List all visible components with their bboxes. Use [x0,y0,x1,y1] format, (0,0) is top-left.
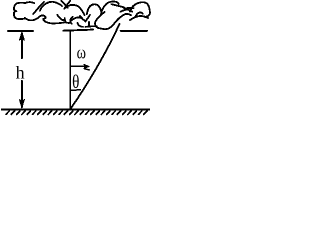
h dimension arrow: upper stem [21,33,23,58]
cloud left: z-curl [42,15,46,21]
cloud left: big top arc [40,2,62,11]
svg-text:h: h [16,63,25,83]
cloud right: top stroke [112,4,124,7]
cloud middle: L scallop [65,18,70,23]
cloud middle: right foot stroke [95,12,104,22]
cloud base line segment A [8,30,33,32]
cloud right: big arch [130,2,150,17]
omega arrowhead [84,64,89,68]
svg-text:ω: ω [77,42,86,63]
cloud left: diagonal stroke [33,2,44,14]
cloud middle: small left arc [57,15,65,20]
h dimension arrow: up arrowhead [19,32,24,40]
h dimension arrow: lower stem [21,81,23,108]
cloud middle: paren scallop [70,17,73,24]
cloud middle: bottom bowl arc [95,14,125,29]
ground line [2,108,149,110]
cloud middle: X cross stroke A [61,1,68,8]
cloud left: bottom wave [25,16,41,21]
ground hatching [6,111,147,114]
cloud middle: top wave right [65,5,85,15]
cloud left: top wave [24,2,34,3]
cloud right: inner arc [135,12,143,17]
cloud base line segment D [121,30,147,32]
cloud middle: bottom edge [86,25,97,28]
cloud left: top-left hook [14,3,26,19]
omega arrow shaft [71,65,85,67]
cloud middle: bottom scallop [78,23,84,27]
cloud middle: wave to right [71,17,83,21]
cloud middle: bottom tick [88,22,90,26]
cloud middle: arch 2 [101,2,119,15]
cloud middle: V stroke [80,15,90,22]
cloud base line segment B [64,30,94,31]
cloud middle: arch 1 [87,4,102,14]
cloud right: bottom arc left [125,14,131,15]
slanted line [71,24,120,109]
vertical line (cloud base to ground) [69,31,71,109]
cloud left: bottom stroke to right [45,22,64,24]
h dimension arrow: down arrowhead [19,100,24,108]
theta angle chord [71,89,81,92]
cloud right: mid stroke [121,10,133,12]
cloud middle: X cross stroke B [64,1,70,9]
cloud right: bottom arc right [130,16,148,20]
